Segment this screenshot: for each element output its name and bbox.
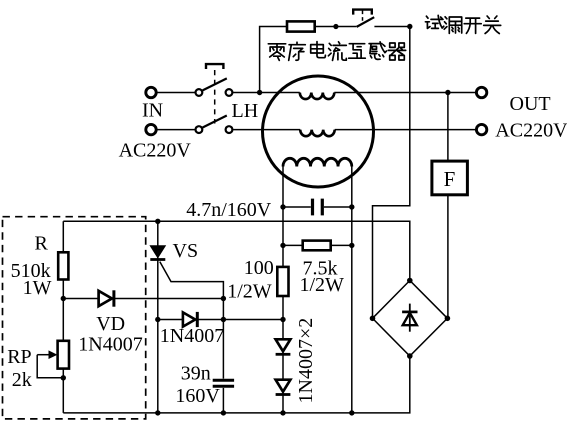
svg-text:100: 100: [244, 257, 274, 279]
label 试漏开关 (test leak switch): [425, 15, 500, 33]
svg-text:1/2W: 1/2W: [227, 281, 272, 303]
svg-text:AC220V: AC220V: [495, 120, 567, 142]
wire L from IN to switch: [156, 92, 195, 94]
svg-text:RP: RP: [7, 346, 31, 368]
wire secondary right leg: [351, 167, 353, 413]
wire D2 row: [158, 319, 283, 321]
resistor R3 100: [277, 267, 288, 296]
junction dot L / test branch tap: [257, 90, 262, 95]
bridge rectifier VC diamond: [373, 281, 448, 357]
junction dot RP wiper: [61, 375, 66, 380]
junction dot 7.5k right: [349, 243, 354, 248]
wire bottom rail: [63, 356, 410, 413]
junction dot test branch: [333, 24, 338, 29]
junction dot rail secondary: [349, 410, 354, 415]
junction dot rail C2: [221, 410, 226, 415]
wire 7.5k row: [283, 244, 352, 246]
thyristor VS symbol: [150, 246, 165, 260]
junction dot bridge left: [370, 316, 376, 322]
junction dot bridge top: [407, 278, 413, 284]
svg-text:4.7n/160V: 4.7n/160V: [186, 199, 272, 221]
svg-text:AC220V: AC220V: [119, 140, 192, 162]
junction dot D2 right: [280, 317, 285, 322]
wire L transformer to OUT: [334, 92, 477, 94]
wire N switch to transformer: [233, 129, 300, 131]
capacitor C1 plates: [313, 199, 323, 216]
svg-text:VS: VS: [173, 240, 199, 262]
junction dot test node: [407, 24, 412, 29]
svg-text:OUT: OUT: [510, 93, 551, 115]
wire gate rail: [63, 221, 410, 280]
wire N transformer to OUT: [335, 129, 477, 131]
wire VS branch vertical: [157, 221, 159, 413]
wire R-RP branch vertical: [62, 221, 64, 413]
junction dot rail D4: [280, 410, 285, 415]
capacitor C2 39n plates: [213, 380, 234, 386]
svg-text:1W: 1W: [23, 277, 52, 299]
terminal OUT-N: [476, 124, 486, 134]
potentiometer RP wiper arrow: [37, 350, 63, 377]
svg-text:1N4007×2: 1N4007×2: [295, 318, 317, 404]
label 零序电流互感器 (zero-sequence current transformer): [268, 42, 405, 61]
wire N from IN to switch: [156, 129, 195, 131]
switch LH blade L: [203, 78, 227, 90]
wire VD row: [63, 298, 223, 300]
trip element F box: [432, 161, 468, 195]
capacitor C1 4.7n/160V wires: [283, 206, 352, 208]
svg-text:1N4007: 1N4007: [160, 325, 224, 347]
svg-text:F: F: [444, 167, 456, 191]
wire VS gate: [160, 262, 224, 299]
terminal OUT-L: [476, 87, 486, 97]
svg-text:IN: IN: [142, 100, 163, 122]
junction dot C1 left: [280, 204, 285, 209]
svg-text:1N4007: 1N4007: [78, 334, 142, 356]
resistor R 510k: [58, 252, 68, 279]
switch LH contact N-right: [226, 126, 233, 133]
switch LH contact L-right: [226, 89, 233, 96]
junction dot gate node: [221, 296, 226, 301]
transformer LH core circle: [263, 76, 374, 187]
switch LH actuator bracket: [206, 64, 223, 69]
test switch blade: [357, 17, 375, 27]
junction dot 7.5k left: [280, 243, 285, 248]
svg-text:1/2W: 1/2W: [300, 274, 345, 296]
svg-text:VD: VD: [96, 313, 125, 335]
wire F to bridge right: [447, 195, 449, 318]
junction dot VS anode: [155, 219, 160, 224]
transformer primary coil N: [300, 130, 335, 137]
junction dot bridge right: [445, 316, 451, 322]
wire test switch to node: [374, 26, 409, 28]
svg-text:39n: 39n: [181, 363, 211, 385]
terminal IN-N: [146, 124, 156, 134]
junction dot bridge bottom: [407, 353, 413, 359]
diode VD symbol: [99, 290, 114, 306]
junction dot D2 left: [155, 317, 160, 322]
terminal IN-L: [146, 87, 156, 97]
switch LH contact N-left: [196, 126, 203, 133]
switch LH contact L-left: [196, 89, 203, 96]
test switch actuator bracket: [353, 10, 372, 15]
dashed enclosure box: [3, 217, 146, 419]
diode D2 1N4007 symbol: [183, 312, 197, 327]
wire F tap drop: [447, 93, 449, 162]
wire resistor to test switch: [315, 26, 357, 28]
svg-text:R: R: [35, 233, 49, 255]
svg-text:LH: LH: [232, 100, 259, 122]
wire test node drop to bridge left: [373, 27, 410, 319]
resistor R2 7.5k: [303, 241, 331, 251]
junction dot rail VS: [155, 410, 160, 415]
junction dot VD left: [61, 296, 66, 301]
switch LH gang dashed link: [214, 70, 216, 124]
wire test-branch riser: [260, 27, 287, 93]
junction dot L / F tap: [445, 90, 450, 95]
transformer secondary coil: [283, 158, 352, 166]
wire C2 branch: [222, 299, 224, 413]
switch LH blade N: [203, 116, 227, 128]
test switch dashed stem: [362, 11, 364, 24]
diode D4 symbol: [276, 380, 291, 395]
diode D3 symbol: [276, 339, 291, 354]
junction dot D2 mid: [221, 317, 226, 322]
svg-text:160V: 160V: [175, 385, 220, 407]
wire L switch to transformer: [233, 92, 300, 94]
svg-text:2k: 2k: [12, 369, 32, 391]
resistor (test branch): [287, 21, 315, 31]
transformer primary coil L: [300, 93, 335, 100]
wire secondary left leg: [282, 167, 284, 413]
junction dot C1 right: [349, 204, 354, 209]
potentiometer RP 2k body: [58, 341, 69, 369]
